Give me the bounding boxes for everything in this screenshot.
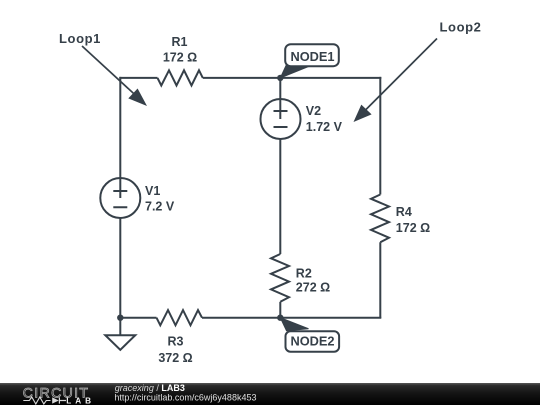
wire left upper vertical <box>119 77 121 178</box>
logo CIRCUIT LAB <box>23 385 95 405</box>
wire top horizontal <box>119 77 381 79</box>
voltage source V1 <box>100 178 140 218</box>
resistor R2 <box>271 254 289 302</box>
svg-text:R2: R2 <box>296 266 312 280</box>
svg-text:Loop1: Loop1 <box>59 31 101 46</box>
wire right vertical bottom <box>379 242 381 317</box>
label NODE1 <box>280 44 339 78</box>
svg-text:372 Ω: 372 Ω <box>158 351 192 365</box>
label R2 value <box>296 266 330 294</box>
svg-text:R4: R4 <box>396 205 412 219</box>
annotation Loop1 <box>59 31 147 106</box>
wire left lower vertical <box>119 218 121 318</box>
label R1 value <box>163 35 197 65</box>
svg-text:1.72 V: 1.72 V <box>306 120 343 134</box>
label NODE2 <box>280 318 339 352</box>
svg-text:http://circuitlab.com/c6wj6y48: http://circuitlab.com/c6wj6y488k453 <box>114 393 256 403</box>
wire bottom horizontal <box>119 317 381 319</box>
footer bar <box>0 383 540 405</box>
resistor R3 <box>157 310 203 325</box>
svg-text:V2: V2 <box>306 104 321 118</box>
voltage source V2 <box>261 99 301 139</box>
svg-text:NODE1: NODE1 <box>290 49 334 64</box>
svg-text:Loop2: Loop2 <box>440 20 482 35</box>
label V1 value <box>145 184 175 214</box>
wire middle bottom stub <box>279 302 281 318</box>
label R4 value <box>396 205 430 235</box>
annotation Loop2 <box>354 20 482 123</box>
node C junction dot ground <box>117 315 123 321</box>
node B junction dot NODE2 <box>277 315 283 321</box>
svg-text:272 Ω: 272 Ω <box>296 281 330 295</box>
svg-text:172 Ω: 172 Ω <box>396 221 430 235</box>
wire middle top stub <box>279 78 281 119</box>
wire middle mid vertical <box>279 139 281 254</box>
svg-text:7.2 V: 7.2 V <box>145 200 175 214</box>
svg-text:LAB: LAB <box>66 397 95 405</box>
resistor R1 <box>158 70 203 85</box>
svg-text:R1: R1 <box>172 35 188 49</box>
svg-text:172 Ω: 172 Ω <box>163 51 197 65</box>
node A junction dot NODE1 <box>277 75 283 81</box>
svg-text:R3: R3 <box>168 335 184 349</box>
ground <box>105 318 135 350</box>
svg-text:V1: V1 <box>145 184 160 198</box>
label V2 value <box>306 104 343 134</box>
label R3 value <box>158 335 192 366</box>
resistor R4 <box>371 195 389 243</box>
wire right vertical top <box>379 77 381 195</box>
svg-text:NODE2: NODE2 <box>290 334 334 349</box>
